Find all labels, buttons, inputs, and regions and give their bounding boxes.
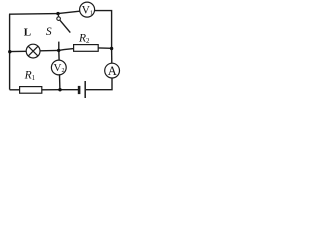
- wire ammeter bottom to bottom-right corner: [86, 78, 112, 90]
- svg-text:S: S: [46, 26, 52, 38]
- resistor R2 box: [74, 45, 99, 52]
- battery negative plate (short thick): [78, 86, 81, 94]
- wire lamp right to center junction: [40, 49, 59, 51]
- node: left junction on left wire: [8, 50, 11, 53]
- svg-text:L: L: [24, 27, 31, 39]
- wire V2 bottom junction to R1 right: [42, 89, 60, 91]
- wire V2 top lead: [58, 50, 60, 59]
- wire top junction to V1 left: [58, 11, 80, 13]
- switch S pivot stub: [57, 14, 59, 17]
- node: switch junction on top wire: [56, 12, 59, 15]
- svg-text:V1: V1: [82, 4, 94, 16]
- svg-text:R2: R2: [78, 33, 90, 46]
- wire switch contact stub: [58, 42, 60, 51]
- voltmeter V2 circle: [51, 60, 66, 75]
- switch S blade (open): [60, 20, 70, 32]
- node: center junction (lamp / R2 / V2 / switch): [57, 49, 60, 52]
- svg-text:A: A: [108, 64, 117, 78]
- node: bottom junction (V2 lead on bottom wire): [58, 88, 61, 91]
- svg-text:V2: V2: [54, 62, 65, 74]
- wire top (top-left corner to switch junction): [9, 13, 58, 16]
- switch S pivot circle: [57, 17, 61, 21]
- wire R2 right to right-side junction: [98, 47, 111, 49]
- wire R1 left to bottom-left corner: [10, 89, 20, 91]
- battery positive plate (long thin): [84, 81, 86, 98]
- resistor R1 box: [20, 87, 42, 94]
- wire V1 right to top-right corner down to R2 junction: [95, 11, 112, 49]
- wire left side (top-left corner down to bottom-left corner): [9, 14, 11, 89]
- ammeter A circle: [105, 63, 120, 78]
- wire center junction to R2 left: [59, 49, 74, 51]
- lamp L symbol (circle with X): [26, 44, 40, 58]
- voltmeter V1 circle: [80, 2, 95, 17]
- svg-text:R1: R1: [24, 70, 36, 83]
- node: right junction (R2 / ammeter wire): [110, 47, 113, 50]
- wire V2 bottom lead: [59, 74, 61, 89]
- wire lamp branch: left junction to lamp: [10, 50, 27, 52]
- wire battery negative to V2 bottom junction: [60, 89, 78, 91]
- wire R2 junction down to ammeter top: [111, 49, 113, 64]
